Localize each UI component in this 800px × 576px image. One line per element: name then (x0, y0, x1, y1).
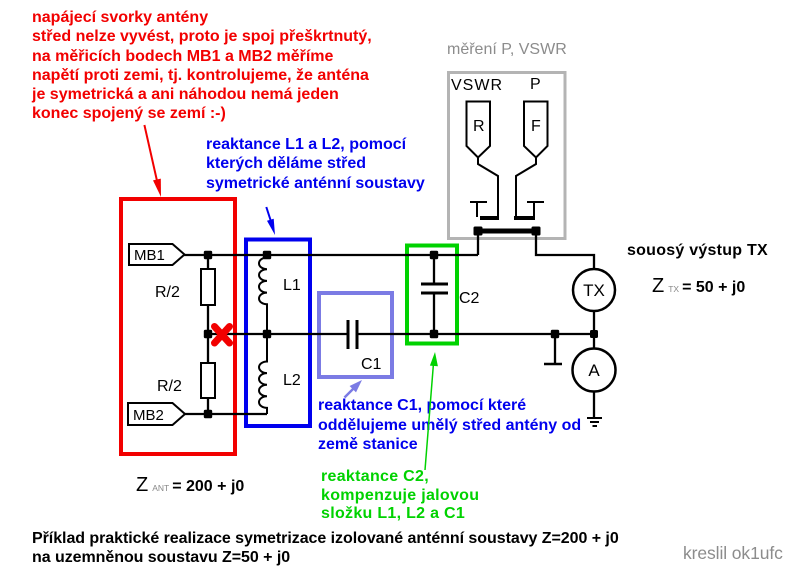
svg-text:VSWR: VSWR (451, 77, 503, 94)
svg-text:C1: C1 (361, 356, 382, 373)
svg-text:R/2: R/2 (155, 284, 180, 301)
svg-text:L2: L2 (283, 372, 301, 389)
svg-text:L1: L1 (283, 277, 301, 294)
svg-text:R/2: R/2 (157, 378, 182, 395)
svg-text:F: F (531, 118, 541, 135)
svg-text:MB2: MB2 (133, 407, 164, 424)
svg-text:R: R (473, 118, 485, 135)
svg-text:A: A (588, 361, 600, 380)
svg-text:TX: TX (583, 281, 605, 300)
svg-text:MB1: MB1 (134, 247, 165, 264)
svg-text:P: P (530, 76, 541, 93)
svg-text:C2: C2 (459, 290, 480, 307)
